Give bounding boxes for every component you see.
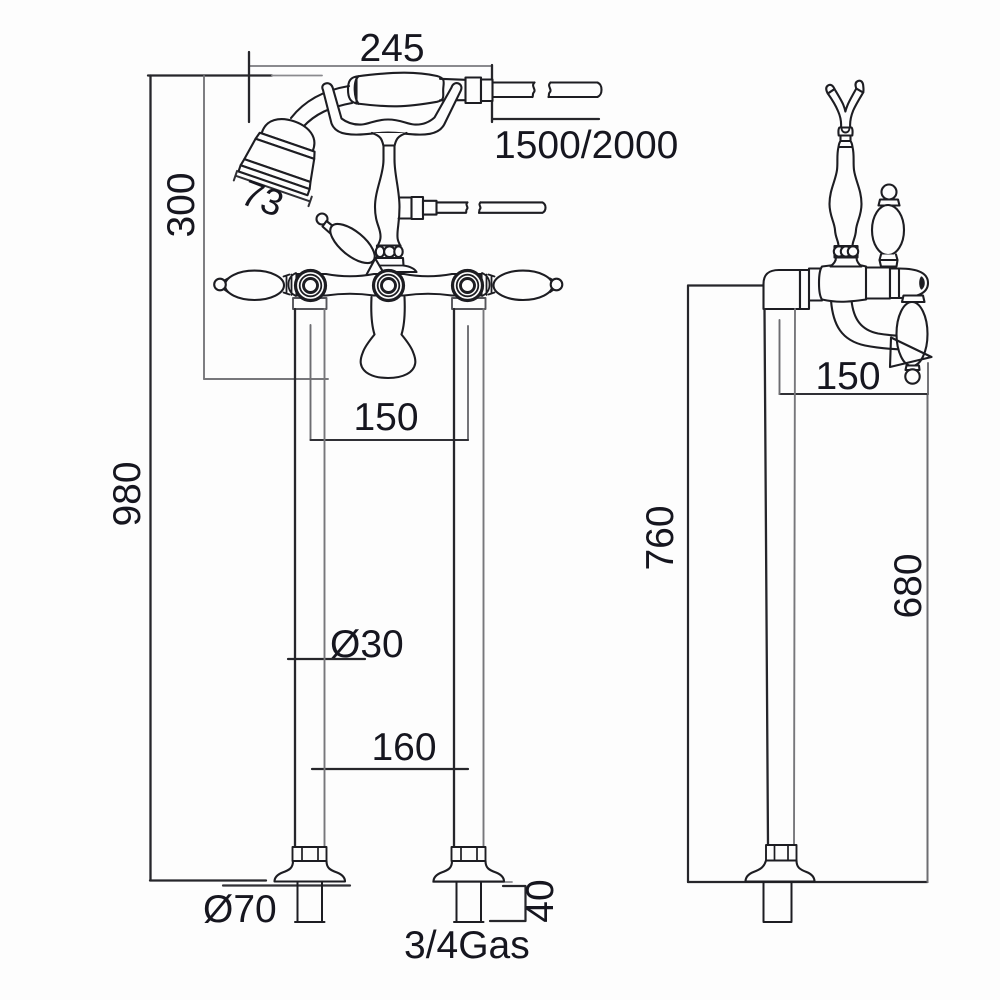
column pivot ring (376, 246, 403, 259)
svg-text:760: 760 (639, 505, 682, 570)
dim 1500/2000 bracket (492, 118, 599, 120)
side column neck ring (839, 141, 853, 147)
side lever ball (905, 369, 919, 383)
svg-text:680: 680 (887, 553, 930, 618)
dim 150 side: horizontal line (780, 393, 929, 395)
column base band and skirt (369, 258, 417, 272)
column stem joint line (384, 144, 395, 146)
mixer bar body (297, 274, 482, 296)
dim 150 side: right extension (927, 363, 929, 394)
hand shower hose: nut at handle end (466, 78, 493, 104)
svg-text:40: 40 (519, 879, 562, 922)
right pipe nut (452, 847, 486, 861)
left valve rings (296, 271, 326, 301)
column baluster body (375, 160, 401, 247)
dim 680 vertical line (927, 394, 929, 882)
fork stem and clip ring (841, 136, 851, 142)
right threaded tail (454, 882, 484, 923)
left pipe flange (293, 298, 327, 309)
hand shower hose segment 1 with break (493, 83, 535, 98)
side handle egg (872, 205, 904, 255)
side pipe elbow (764, 270, 801, 309)
dim 760 top tick (688, 284, 766, 286)
side body coupling rings (800, 269, 822, 310)
svg-text:150: 150 (353, 396, 418, 439)
dim 300 bottom line (204, 378, 328, 380)
cradle (posts and U saddle) (322, 83, 461, 135)
dim top reference line y=75 (148, 74, 272, 76)
lever egg body (324, 217, 381, 270)
outlet pipe segment with break (437, 202, 468, 212)
floor line left base (223, 884, 350, 886)
dim 760 vertical line (687, 286, 689, 883)
dim 760/680 bottom tick (688, 881, 928, 883)
left pipe (294, 309, 296, 847)
side end cap (890, 269, 928, 299)
side body step (866, 268, 890, 299)
svg-text:Ø70: Ø70 (203, 888, 277, 931)
hand shower hose segment 2 (549, 83, 602, 98)
svg-text:160: 160 (371, 726, 436, 769)
hand shower grip left end cap (348, 76, 359, 104)
right valve rings (453, 271, 483, 301)
left base bell (275, 861, 346, 882)
hand shower hose break mark (549, 83, 551, 98)
side handle ball (882, 185, 897, 200)
left threaded tail (295, 882, 325, 923)
diverter socket block (366, 258, 385, 290)
floor line right base (433, 881, 512, 883)
side spout wedge tip (890, 338, 932, 368)
dim 245 left tick (248, 52, 250, 122)
left handle egg (225, 271, 284, 300)
side spout curve (831, 301, 906, 350)
lever ball tip (317, 214, 328, 225)
side column baluster (830, 147, 862, 246)
lever knurl (323, 221, 337, 235)
dim O30 leader line (288, 658, 365, 660)
fork Y (828, 89, 863, 128)
dim 980 bottom tick / O70 leader (150, 879, 266, 881)
dim 150 side: left extension (779, 320, 781, 394)
right base bell (434, 861, 505, 882)
dim 245 horizontal line (249, 65, 492, 67)
fork left tip (826, 85, 834, 94)
svg-text:150: 150 (815, 355, 880, 398)
right handle ferrule (482, 273, 495, 296)
dim 73 leader line (234, 171, 312, 206)
spout (front) (361, 297, 416, 378)
side body main block (819, 264, 869, 302)
side end cap screw dot (920, 278, 924, 289)
outlet nipple connector (399, 198, 412, 219)
shower head bell (234, 109, 333, 206)
hand shower grip right taper to nut (440, 79, 466, 101)
side threaded tail (764, 882, 792, 923)
svg-text:Ø30: Ø30 (330, 623, 404, 666)
fork right tip (856, 81, 864, 93)
svg-text:245: 245 (359, 27, 424, 70)
side handle collar (879, 200, 900, 206)
dim 980 vertical line (149, 76, 151, 881)
dim 40 bracket (490, 886, 526, 921)
side lever base (906, 366, 920, 371)
side lever egg (897, 302, 928, 366)
dim 245 right tick (491, 65, 493, 122)
svg-text:980: 980 (106, 461, 149, 526)
right handle egg (494, 271, 553, 300)
side column knurled ring (834, 246, 858, 258)
side column skirt (831, 258, 862, 267)
svg-text:300: 300 (160, 172, 203, 237)
dim 150 front: right extension (467, 326, 469, 440)
dim 150 front: left extension (310, 325, 312, 440)
centre valve rings (374, 271, 404, 301)
svg-text:1500/2000: 1500/2000 (494, 124, 678, 167)
left pipe nut (293, 847, 327, 861)
column stem below cradle (372, 133, 407, 182)
hand shower grip capsule (357, 73, 444, 107)
dim 300 vertical line (203, 76, 205, 379)
side handle base rings (880, 255, 898, 267)
hand shower neck (grip to head) (291, 86, 352, 127)
side pipe (765, 309, 769, 845)
left handle neck + ball (225, 279, 229, 293)
right handle neck + ball (550, 279, 554, 293)
right pipe (453, 309, 455, 847)
side pipe nut (766, 845, 797, 861)
dim 160 horizontal line (312, 768, 468, 770)
diverter lever (front, up-left) (317, 214, 381, 270)
outlet nipple to hose (right) (412, 197, 424, 219)
left handle ferrule (284, 273, 297, 296)
dim 150 front: horizontal line (311, 439, 469, 441)
svg-text:3/4Gas: 3/4Gas (404, 924, 530, 967)
right pipe flange (452, 298, 486, 309)
side base bell (746, 861, 815, 882)
side lever collar (902, 296, 925, 303)
